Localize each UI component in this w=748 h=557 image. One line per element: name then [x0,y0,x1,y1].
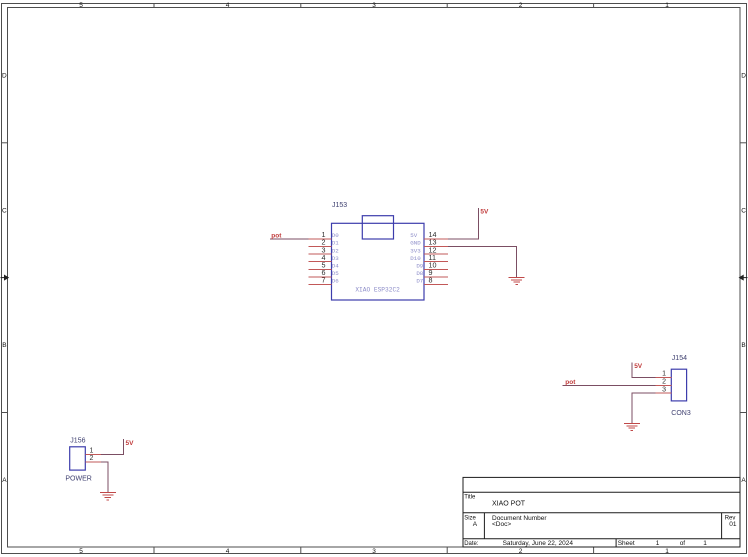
connector J153 (XIAO ESP32C2 module) [332,216,425,300]
pin 13 (GND) of J153 [410,238,448,247]
svg-text:1: 1 [662,371,666,378]
ground symbol (J156 GND net) [100,493,116,500]
pin 9 (D8) of J153 [416,268,447,277]
svg-text:D: D [2,72,7,79]
svg-text:4: 4 [226,2,230,9]
wire GND from J153 pin 13 [448,247,517,278]
svg-text:D4: D4 [332,263,339,270]
svg-text:3V3: 3V3 [410,247,421,254]
ground symbol (J153 GND net) [509,277,525,284]
svg-text:3: 3 [372,2,376,9]
svg-text:pot: pot [565,379,576,386]
svg-text:of: of [680,540,686,547]
pin 14 (5V) of J153 [410,230,448,239]
pin 4 (D3) of J153 [308,253,339,262]
svg-text:A: A [473,521,478,528]
svg-text:D6: D6 [332,278,339,285]
svg-text:5V: 5V [480,209,489,216]
pin 5 (D4) of J153 [308,261,339,270]
svg-text:1: 1 [90,448,94,455]
svg-text:B: B [741,342,745,349]
connector J156 (POWER) [70,447,86,470]
pin 6 (D5) of J153 [308,268,339,277]
wire net pot to J153 pin 1 [270,238,309,240]
svg-text:POWER: POWER [65,476,91,483]
svg-text:7: 7 [322,276,326,285]
pin 2 of J154 [656,379,672,386]
svg-text:2: 2 [662,379,666,386]
svg-text:D8: D8 [416,270,423,277]
svg-text:1: 1 [665,548,669,555]
svg-text:D0: D0 [332,232,339,239]
pin 3 of J154 [656,386,672,393]
svg-text:Title: Title [464,495,476,501]
svg-text:1: 1 [665,2,669,9]
pin 1 of J154 [656,371,672,378]
pin 1 of J156 [85,448,101,455]
svg-text:8: 8 [429,276,433,285]
svg-text:C: C [741,207,746,214]
svg-text:D5: D5 [332,270,339,277]
svg-text:1: 1 [703,540,707,547]
title block (document furniture) [463,477,740,547]
svg-text:C: C [2,207,7,214]
svg-text:01: 01 [729,521,737,528]
svg-text:D3: D3 [332,255,339,262]
svg-text:5V: 5V [126,440,135,447]
svg-text:D9: D9 [416,263,423,270]
svg-text:2: 2 [90,455,94,462]
wire GND from J154 pin 3 [632,393,656,423]
svg-text:A: A [741,477,746,484]
svg-text:GND: GND [410,240,421,247]
pin 2 (D1) of J153 [308,238,339,247]
pin 7 (D6) of J153 [308,276,339,285]
svg-text:J154: J154 [672,355,687,362]
pin 11 (D10) of J153 [410,253,448,262]
svg-text:3: 3 [662,386,666,393]
pin 3 (D2) of J153 [308,245,339,254]
svg-text:D2: D2 [332,247,339,254]
svg-text:5V: 5V [410,232,417,239]
svg-text:5: 5 [79,2,83,9]
svg-text:4: 4 [226,548,230,555]
svg-text:5: 5 [79,548,83,555]
pin 10 (D9) of J153 [416,261,447,270]
svg-text:D7: D7 [416,278,423,285]
pin 12 (3V3) of J153 [410,245,448,254]
svg-text:Date:: Date: [464,541,479,547]
svg-text:XIAO ESP32C2: XIAO ESP32C2 [355,287,400,294]
pin 8 (D7) of J153 [416,276,447,285]
pin 1 (D0) of J153 [308,230,339,239]
wire GND from J156 pin 2 [101,462,108,493]
connector J154 (CON3) [671,369,686,401]
svg-text:D10: D10 [410,255,421,262]
svg-text:3: 3 [372,548,376,555]
svg-text:1: 1 [656,540,660,547]
svg-text:D: D [741,72,746,79]
pin 2 of J156 [85,455,101,462]
svg-text:B: B [2,342,6,349]
svg-text:J156: J156 [70,437,85,444]
svg-text:XIAO POT: XIAO POT [492,500,526,507]
ground symbol (J154 GND net) [624,424,640,431]
svg-text:J153: J153 [332,202,347,209]
svg-text:Sheet: Sheet [618,540,635,547]
svg-text:2: 2 [519,548,523,555]
wire net pot to J154 pin 2 [563,385,656,387]
svg-text:2: 2 [519,2,523,9]
svg-text:D1: D1 [332,240,339,247]
wire 5V to J153 pin 14 [448,208,479,239]
svg-text:CON3: CON3 [671,410,691,417]
wire 5V to J154 pin 1 [632,362,656,377]
svg-text:<Doc>: <Doc> [492,521,511,528]
svg-text:Saturday, June 22, 2024: Saturday, June 22, 2024 [503,540,574,547]
svg-text:pot: pot [271,233,282,240]
svg-text:5V: 5V [634,363,643,370]
wire 5V to J156 pin 1 [101,439,123,454]
svg-text:A: A [2,477,7,484]
